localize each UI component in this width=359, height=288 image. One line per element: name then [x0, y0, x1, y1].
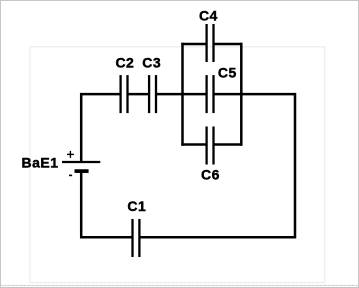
capacitor C2: [121, 75, 128, 113]
capacitor C6: [207, 127, 214, 165]
svg-text:BaE1: BaE1: [22, 154, 59, 170]
battery minus sign: [69, 174, 72, 176]
wire: right bus to top-right corner down to bottom-right corner: [139, 94, 295, 237]
wire: middle branch right (C5 to right bus): [214, 93, 242, 96]
battery BaE1: [62, 162, 100, 171]
svg-text:C4: C4: [199, 8, 218, 24]
svg-text:C3: C3: [142, 55, 161, 71]
svg-text:C2: C2: [115, 55, 134, 71]
battery plus sign: [67, 151, 74, 158]
svg-text:C5: C5: [218, 65, 237, 81]
wire: top branch left (to C4): [181, 43, 206, 46]
wire: bottom branch right (C6 to right bus): [214, 143, 243, 146]
wire: C3 to parallel block left node: [156, 93, 184, 96]
wire: middle branch left (to C5): [183, 93, 207, 96]
wire: parallel block left vertical bus: [181, 43, 184, 146]
capacitor C1: [133, 219, 140, 257]
wire: C2 to C3: [128, 93, 150, 96]
capacitor C3: [149, 75, 156, 113]
wire: C1 to bottom-left corner up to battery - terminal: [81, 172, 132, 238]
wire: top branch right (C4 to right bus): [214, 43, 243, 46]
svg-text:C1: C1: [127, 198, 146, 214]
svg-text:C6: C6: [201, 167, 220, 183]
wire: battery + terminal up and across to C2: [81, 94, 120, 161]
wire: parallel block right vertical bus: [240, 43, 243, 146]
wire: bottom branch left (to C6): [181, 143, 206, 146]
capacitor C4: [207, 24, 214, 62]
capacitor C5: [207, 75, 214, 113]
